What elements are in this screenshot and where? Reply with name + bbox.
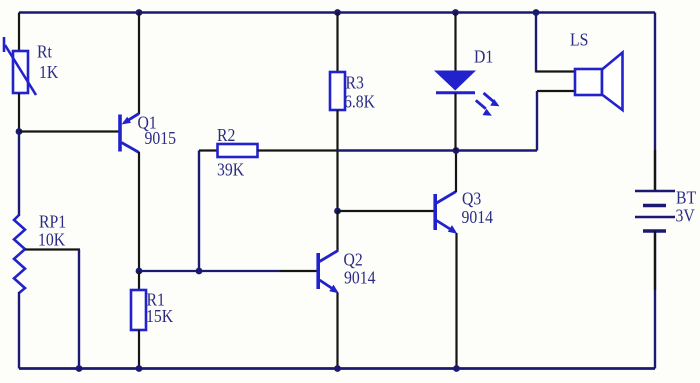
resistor R2 — [199, 144, 338, 157]
wire R2 branch vertical — [198, 151, 200, 272]
wire Q3 base rail — [338, 210, 434, 212]
label R2 value — [217, 125, 245, 180]
svg-text:1K: 1K — [39, 62, 59, 82]
wire LS bottom terminal — [537, 90, 576, 92]
wire top rail — [19, 11, 655, 14]
LED D1 — [434, 71, 500, 116]
svg-text:Q3: Q3 — [462, 188, 481, 208]
label Rt value — [37, 42, 59, 83]
wire RP1 to bottom rail — [18, 292, 20, 369]
wire right side bottom (battery to rail) — [654, 231, 656, 369]
wire Q1 base rail — [19, 130, 119, 132]
svg-text:LS: LS — [570, 30, 588, 50]
svg-text:39K: 39K — [217, 160, 245, 180]
transistor Q3 — [433, 192, 457, 234]
node R1 top — [136, 268, 143, 275]
wire wiper down to bottom rail — [78, 250, 80, 369]
label BT value — [676, 188, 697, 226]
wire rail y271 left part — [139, 270, 280, 272]
wire LS bottom to rail y150 — [536, 91, 538, 151]
node wiper-bottom rail — [76, 365, 83, 372]
wire Rt to node — [18, 93, 20, 133]
wire right side top (rail to battery) — [654, 13, 656, 192]
wire rail y271 to Q2 base — [280, 270, 317, 272]
label Q1 value — [137, 112, 175, 148]
resistor R3 — [330, 13, 345, 212]
svg-text:RP1: RP1 — [39, 211, 66, 231]
node R1 bottom — [136, 365, 143, 372]
speaker LS — [575, 53, 623, 111]
label R3 value — [344, 73, 376, 112]
svg-text:Rt: Rt — [37, 42, 52, 62]
label RP1 value — [38, 211, 66, 249]
wire node to RP1 — [18, 132, 20, 217]
svg-text:9014: 9014 — [462, 207, 494, 227]
wire R3 node to Q2 collector — [336, 211, 338, 251]
node D1 bottom junction — [453, 147, 460, 154]
wire left vertical top (rail to Rt) — [18, 13, 20, 53]
wire LS top terminal — [536, 70, 576, 72]
wire RP1 wiper tap — [25, 248, 80, 250]
svg-text:R2: R2 — [217, 125, 235, 145]
wire Q3 collector up — [455, 151, 457, 193]
node Q3 base branch — [334, 208, 341, 215]
transistor Q1 — [118, 114, 139, 153]
node R2 branch — [196, 268, 203, 275]
node junction left — [16, 128, 23, 135]
wire top rail to Q1 emitter — [138, 13, 140, 115]
svg-text:9014: 9014 — [344, 267, 376, 287]
wire Q2 emitter to bottom rail — [336, 293, 338, 369]
potentiometer RP1 — [14, 215, 25, 293]
svg-text:10K: 10K — [38, 230, 66, 250]
node top rail LS — [533, 9, 540, 16]
battery BT — [635, 150, 675, 290]
node Q2 bottom — [334, 365, 341, 372]
wire top rail to LS top terminal — [535, 13, 537, 73]
wire Q1 collector down — [138, 152, 140, 272]
wire bottom rail — [19, 367, 655, 370]
svg-text:3V: 3V — [676, 206, 696, 226]
label R1 value — [146, 290, 174, 327]
label Q2 value — [343, 250, 375, 288]
thermistor Rt — [4, 37, 36, 95]
resistor R1 — [131, 271, 146, 369]
node Q3 bottom — [453, 365, 460, 372]
wire top rail to D1 — [454, 13, 456, 73]
svg-text:6.8K: 6.8K — [344, 92, 376, 112]
svg-text:R3: R3 — [346, 73, 364, 93]
svg-text:15K: 15K — [146, 306, 174, 326]
wire rail y150 right part — [338, 149, 538, 151]
label Q3 value — [462, 188, 494, 227]
transistor Q2 — [316, 251, 338, 294]
wire D1 to node — [454, 93, 456, 151]
svg-text:D1: D1 — [474, 47, 493, 67]
node top rail D1 — [452, 9, 459, 16]
svg-text:9015: 9015 — [144, 128, 175, 148]
node top rail R3 — [334, 9, 341, 16]
wire Q3 emitter to bottom rail — [455, 233, 457, 369]
node top rail Q1 — [136, 9, 143, 16]
